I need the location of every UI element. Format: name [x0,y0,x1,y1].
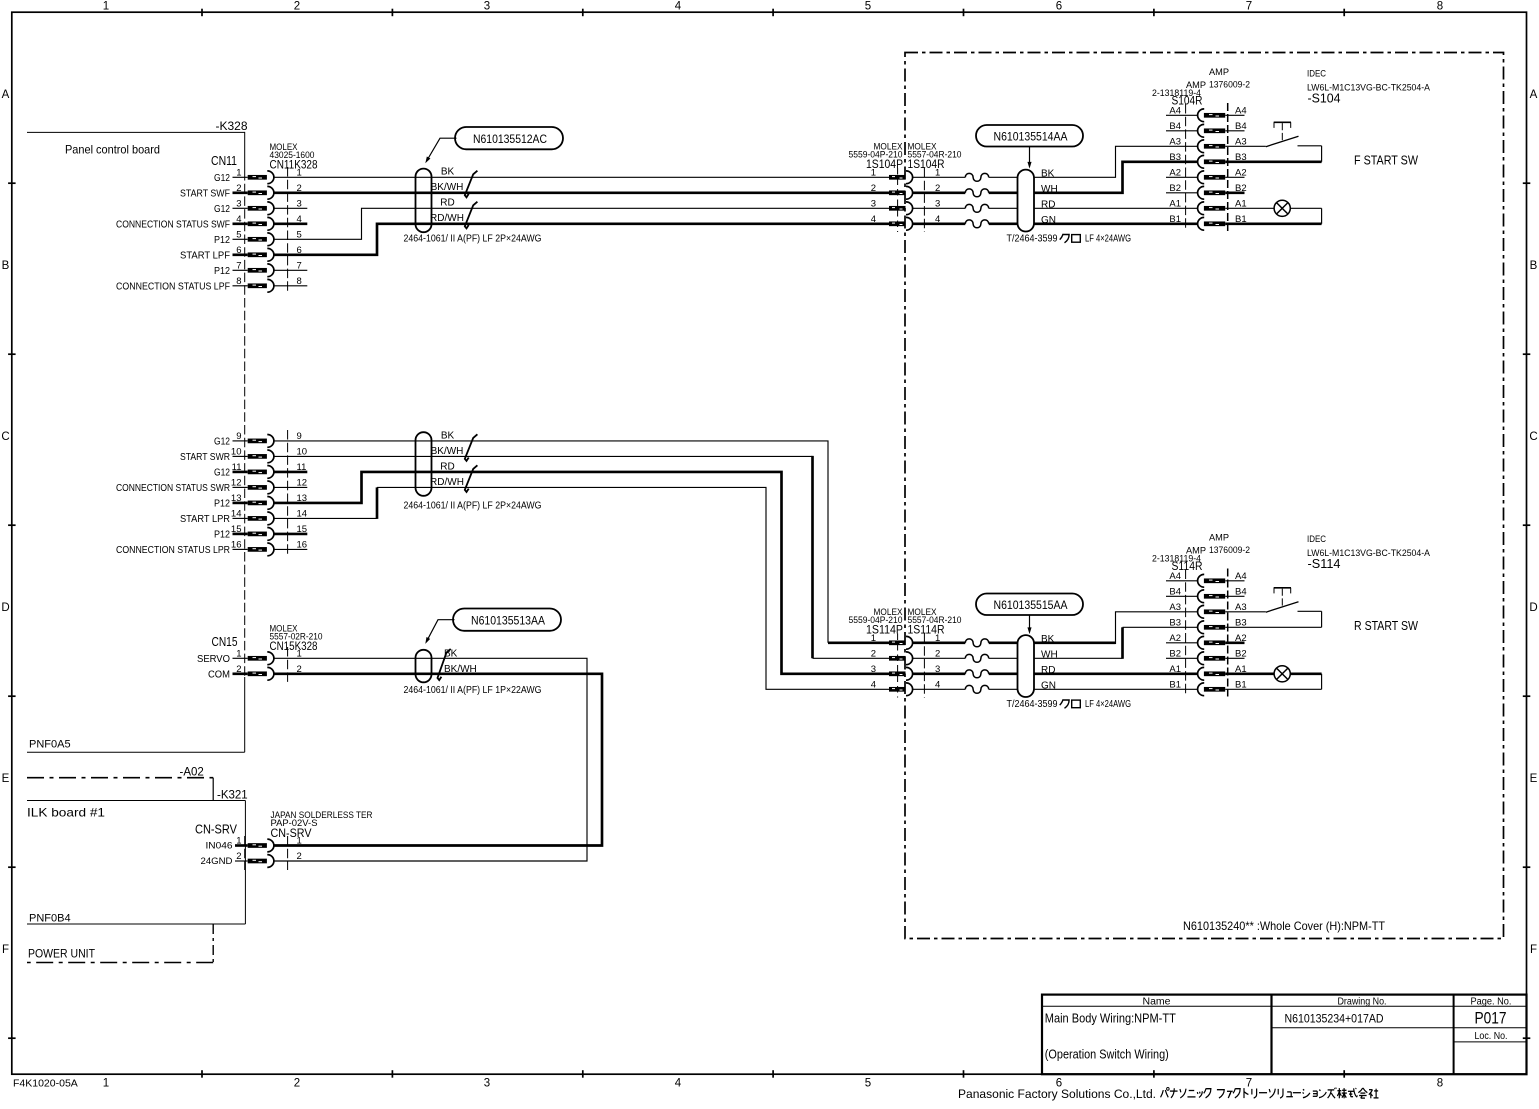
wire RD/WH CN11-6 to 1S104P-4 [274,224,889,255]
svg-text:1: 1 [236,836,241,847]
svg-text:9: 9 [297,431,302,442]
svg-text:A: A [2,89,10,101]
svg-text:RD: RD [440,461,454,472]
cable bundle N610135515AA [1018,635,1035,697]
svg-text:A3: A3 [1169,136,1181,147]
svg-text:1: 1 [103,1,109,13]
svg-text:GN: GN [1041,681,1056,692]
svg-text:IN046: IN046 [206,841,233,852]
svg-text:3: 3 [484,1,490,13]
svg-text:T/2464-3599: T/2464-3599 [1007,234,1058,245]
wire segment with break mark [913,670,1018,678]
svg-text:B: B [1530,260,1538,272]
svg-text:CONNECTION STATUS LPR: CONNECTION STATUS LPR [116,545,230,556]
svg-text:PNF0A5: PNF0A5 [29,739,71,751]
svg-text:2: 2 [236,851,241,862]
wire segment with break mark [913,204,1018,212]
svg-text:RD: RD [1041,200,1055,211]
callout oval N610135513AA [425,609,561,644]
mushroom head actuator [1274,122,1291,141]
svg-text:3: 3 [871,664,876,675]
svg-text:3: 3 [236,198,241,209]
svg-text:START LPR: START LPR [180,514,230,525]
svg-text:2: 2 [294,1,300,13]
svg-text:B4: B4 [1235,586,1247,597]
svg-text:9: 9 [236,431,241,442]
svg-text:D: D [1529,602,1537,614]
svg-text:B3: B3 [1169,617,1181,628]
svg-text:G12: G12 [214,437,230,448]
svg-text:CN11: CN11 [211,154,237,168]
svg-text:2: 2 [236,183,241,194]
svg-text:Loc. No.: Loc. No. [1475,1031,1508,1042]
svg-text:A1: A1 [1169,664,1181,675]
switch contact lines F START SW [1225,146,1321,162]
svg-text:3: 3 [484,1078,490,1090]
indicator lamp [1274,200,1290,216]
wire RD CN11-13 to 1S114P-3 [274,472,889,674]
svg-text:3: 3 [297,198,302,209]
svg-text:BK: BK [441,430,455,441]
wire segment with break mark [913,639,1018,647]
connector CN-SRV (JAPAN SOLDERLESS TER PAP-02V-S) [195,810,373,870]
svg-text:D: D [1,602,9,614]
wire WH to S104R-B3 [1034,162,1198,193]
svg-text:7: 7 [1246,1,1252,13]
svg-text:2464-1061/ II A(PF) LF 2P×24AW: 2464-1061/ II A(PF) LF 2P×24AWG [404,233,542,244]
svg-text:5: 5 [236,229,241,240]
svg-text:B3: B3 [1169,152,1181,163]
svg-text:1: 1 [297,167,302,178]
svg-text:CN-SRV: CN-SRV [271,826,312,840]
svg-text:F4K1020-05A: F4K1020-05A [13,1078,78,1090]
svg-text:2: 2 [871,183,876,194]
wire RD to S104R-A1 [1034,207,1198,209]
svg-text:LF 4×24AWG: LF 4×24AWG [1085,699,1131,710]
cable bundle N610135513AA [416,650,432,683]
svg-text:B1: B1 [1235,679,1247,690]
wire BK/WH CN11-10 to 1S114P-2 [274,456,889,658]
cable bundle N610135512AC [416,169,432,233]
svg-text:10: 10 [297,446,308,457]
svg-text:5: 5 [865,1,871,13]
svg-text:24GND: 24GND [201,856,233,867]
whole cover boundary N610135240 [905,53,1504,939]
svg-text:B2: B2 [1235,183,1247,194]
svg-text:B1: B1 [1169,214,1181,225]
switch contact lines R START SW [1225,611,1321,627]
svg-text:B4: B4 [1235,121,1247,132]
pair mark wires 11-12 [465,465,478,492]
svg-text:A4: A4 [1235,571,1247,582]
svg-text:C: C [1529,431,1537,443]
svg-text:Panasonic Factory Solutions Co: Panasonic Factory Solutions Co.,Ltd. [958,1087,1156,1101]
power unit -A02 dash-dot outline [27,778,213,963]
svg-text:BK: BK [441,167,455,178]
svg-text:B2: B2 [1235,648,1247,659]
svg-text:RD: RD [440,198,454,209]
svg-text:A: A [1530,89,1538,101]
svg-text:START SWR: START SWR [180,452,230,463]
svg-text:CN15: CN15 [212,635,238,649]
svg-text:1: 1 [871,167,876,178]
svg-text:13: 13 [231,493,242,504]
svg-text:-S104: -S104 [1308,92,1341,106]
svg-text:G12: G12 [214,173,230,184]
svg-text:SERVO: SERVO [197,654,230,665]
svg-text:1: 1 [236,167,241,178]
svg-text:CN-SRV: CN-SRV [195,823,238,837]
svg-text:IDEC: IDEC [1307,69,1326,80]
svg-text:IDEC: IDEC [1307,534,1326,545]
svg-text:-K328: -K328 [216,119,248,133]
svg-text:1: 1 [871,633,876,644]
svg-text:16: 16 [231,539,242,550]
svg-text:B2: B2 [1169,183,1181,194]
svg-text:Main Body Wiring:NPM-TT: Main Body Wiring:NPM-TT [1045,1011,1176,1026]
svg-text:7: 7 [297,260,302,271]
svg-text:A2: A2 [1169,167,1181,178]
wire RD CN11-5 to 1S104P-3 [274,208,889,239]
svg-text:N610135513AA: N610135513AA [471,613,545,627]
svg-text:R START SW: R START SW [1354,619,1418,633]
svg-text:G12: G12 [214,468,230,479]
svg-text:8: 8 [1437,1078,1443,1090]
svg-text:(Operation Switch Wiring): (Operation Switch Wiring) [1045,1047,1169,1062]
svg-text:10: 10 [231,446,242,457]
svg-text:WH: WH [1041,650,1058,661]
connector CN11 (MOLEX 43025-1600 / CN11K328) with pins 1-16 [116,142,318,557]
wire BK CN11-1 to 1S104P-1 [274,176,889,178]
svg-text:AMP: AMP [1209,533,1229,544]
svg-text:F: F [2,944,9,956]
svg-text:START LPF: START LPF [180,250,230,261]
svg-text:CONNECTION STATUS LPF: CONNECTION STATUS LPF [116,281,230,292]
wire BK CN15-1 to CN-SRV-2 [274,658,587,861]
callout oval N610135512AC [425,127,563,163]
svg-text:CONNECTION STATUS SWR: CONNECTION STATUS SWR [116,483,230,494]
svg-text:15: 15 [231,524,242,535]
svg-text:A3: A3 [1235,602,1247,613]
svg-text:PNF0B4: PNF0B4 [29,913,71,925]
svg-text:Panel control board: Panel control board [65,143,160,157]
wire segment with break mark [913,220,1018,228]
svg-text:F: F [1530,944,1537,956]
connector 1S104P/1S104R (MOLEX 5559-04P-210 / 5557-04R-210) [849,142,962,233]
wire GN to S114R-B1 [1034,688,1198,690]
svg-text:P12: P12 [214,235,230,246]
svg-text:11: 11 [232,462,242,473]
svg-text:4: 4 [675,1078,682,1090]
lamp circuit wires [1225,208,1321,224]
svg-text:1376009-2: 1376009-2 [1209,545,1250,556]
svg-text:2: 2 [236,664,241,675]
svg-text:6: 6 [236,245,241,256]
svg-text:8: 8 [236,276,241,287]
svg-text:12: 12 [297,477,308,488]
pair mark wires 9-10 [465,434,478,461]
svg-text:COM: COM [208,669,230,680]
pair mark CN15 wires [438,649,451,680]
svg-text:12: 12 [231,477,242,488]
stub CN11-8 [274,285,307,287]
svg-text:B4: B4 [1169,121,1181,132]
svg-text:2: 2 [871,648,876,659]
wire GN to S104R-B1 [1034,222,1198,225]
ILK board -K321 outline [27,801,245,925]
cable bundle N610135514AA [1018,170,1035,232]
svg-text:1: 1 [297,836,302,847]
svg-text:1: 1 [935,167,940,178]
svg-text:-S114: -S114 [1308,557,1341,571]
svg-text:N610135515AA: N610135515AA [994,598,1068,612]
svg-text:14: 14 [297,508,308,519]
svg-text:2: 2 [297,851,302,862]
svg-text:A4: A4 [1235,105,1247,116]
svg-text:P12: P12 [214,266,230,277]
switch blade R START SW [1266,602,1299,612]
svg-text:BK/WH: BK/WH [431,446,464,457]
svg-text:B3: B3 [1235,617,1247,628]
indicator lamp [1274,666,1290,682]
svg-text:2464-1061/ II A(PF) LF 1P×22AW: 2464-1061/ II A(PF) LF 1P×22AWG [404,685,542,696]
connector CN15 (MOLEX 5557-02R-210 / CN15K328) [197,624,323,684]
svg-text:A3: A3 [1169,602,1181,613]
stub CN11-15 [274,533,307,536]
stub CN11-11 [274,471,307,474]
svg-text:BK/WH: BK/WH [431,182,464,193]
cable spec T/2464-3599 kuro LF 4x24AWG [1007,234,1132,245]
svg-text:4: 4 [675,1,682,13]
wire RD to S114R-A1 [1034,672,1198,675]
svg-text:2: 2 [294,1078,300,1090]
svg-text:RD/WH: RD/WH [430,213,464,224]
svg-text:F START SW: F START SW [1354,154,1418,168]
svg-text:N610135240** :Whole Cover (H):: N610135240** :Whole Cover (H):NPM-TT [1183,919,1386,933]
svg-text:5: 5 [865,1078,871,1090]
wire BK to S104R-A3 [1034,146,1198,177]
wire segment with break mark [913,173,1018,181]
title block [1042,995,1527,1075]
svg-text:7: 7 [1246,1078,1252,1090]
svg-text:A2: A2 [1235,633,1247,644]
svg-text:5: 5 [297,229,302,240]
svg-text:8: 8 [1437,1,1443,13]
cable spec T/2464-3599 kuro LF 4x24AWG [1007,699,1132,710]
svg-text:B: B [2,260,10,272]
svg-text:P12: P12 [214,499,230,510]
svg-text:1376009-2: 1376009-2 [1209,80,1250,91]
pair mark wires 3-4 [465,202,478,229]
svg-text:A2: A2 [1235,167,1247,178]
svg-text:-A02: -A02 [180,767,204,779]
svg-text:16: 16 [297,539,308,550]
svg-text:3: 3 [935,198,940,209]
svg-text:CONNECTION STATUS SWF: CONNECTION STATUS SWF [116,219,230,230]
connector S114R (AMP 2-1318119-4 / 1376009-2) [1152,533,1250,697]
svg-text:B4: B4 [1169,586,1181,597]
svg-text:1: 1 [103,1078,109,1090]
svg-text:4: 4 [935,679,940,690]
svg-text:START SWF: START SWF [180,188,230,199]
wire BK/WH CN11-2 to 1S104P-2 [274,191,889,194]
svg-text:ILK board #1: ILK board #1 [27,806,105,820]
wire segment with break mark [913,685,1018,693]
svg-text:B1: B1 [1169,679,1181,690]
svg-text:1: 1 [236,648,241,659]
svg-text:4: 4 [871,214,876,225]
stub CN11-4 [274,222,307,225]
cable bundle (REAR pairs) [416,432,432,496]
svg-text:A4: A4 [1169,105,1181,116]
svg-text:-K321: -K321 [217,790,248,802]
svg-text:N610135514AA: N610135514AA [994,129,1068,143]
stub CN11-12 [274,486,307,488]
svg-text:LF 4×24AWG: LF 4×24AWG [1085,234,1131,245]
switch part labels IDEC -S114 [1307,534,1431,571]
svg-text:4: 4 [236,214,241,225]
svg-text:E: E [2,773,10,785]
svg-text:Name: Name [1143,997,1171,1008]
svg-text:N610135512AC: N610135512AC [473,132,547,146]
svg-text:AMP: AMP [1209,67,1229,78]
svg-text:A2: A2 [1169,633,1181,644]
connector 1S114P/1S114R (MOLEX 5559-04P-210 / 5557-04R-210) [849,607,962,698]
wire BK/WH CN15-2 to CN-SRV-1 [274,674,602,846]
company line Panasonic Factory Solutions [958,1087,1379,1101]
svg-text:A1: A1 [1169,198,1181,209]
svg-text:Page. No.: Page. No. [1471,997,1512,1008]
svg-text:BK/WH: BK/WH [444,664,477,675]
stub CN11-7 [274,269,307,271]
stub CN11-3 [274,207,307,209]
wire BK CN11-9 to 1S114P-1 [274,441,889,643]
wire WH to S114R-B3 [1034,627,1198,659]
svg-text:POWER UNIT: POWER UNIT [28,947,96,961]
wire BK to S114R-A3 [1034,612,1198,644]
pair mark wires 1-2 [465,171,478,198]
connector S104R (AMP 2-1318119-4 / 1376009-2) [1152,67,1250,231]
switch blade F START SW [1266,136,1299,146]
svg-text:3: 3 [871,198,876,209]
svg-text:7: 7 [236,260,241,271]
svg-text:14: 14 [231,508,242,519]
callout oval N610135515AA [976,594,1083,635]
svg-text:B2: B2 [1169,648,1181,659]
svg-text:2: 2 [935,648,940,659]
svg-text:Drawing No.: Drawing No. [1338,997,1387,1008]
svg-text:RD/WH: RD/WH [430,477,464,488]
mushroom head actuator [1274,588,1291,607]
svg-text:G12: G12 [214,204,230,215]
panel control board -K328 outline [27,132,245,752]
lamp circuit wires [1225,674,1321,690]
svg-text:6: 6 [1056,1,1062,13]
svg-text:4: 4 [871,679,876,690]
svg-text:N610135234+017AD: N610135234+017AD [1285,1012,1384,1026]
svg-text:2464-1061/ II A(PF) LF 2P×24AW: 2464-1061/ II A(PF) LF 2P×24AWG [404,500,542,511]
callout oval N610135514AA [976,125,1083,169]
wire segment with break mark [913,654,1018,662]
svg-text:C: C [1,431,9,443]
svg-text:8: 8 [297,276,302,287]
svg-text:CN11K328: CN11K328 [270,158,318,172]
svg-text:A3: A3 [1235,136,1247,147]
svg-text:A4: A4 [1169,571,1181,582]
svg-text:P12: P12 [214,530,230,541]
wire RD/WH CN11-14 to 1S114P-4 [274,487,889,689]
switch part labels IDEC -S104 [1307,69,1431,106]
wire segment with break mark [913,189,1018,197]
stub CN11-16 [274,548,307,550]
svg-text:T/2464-3599: T/2464-3599 [1007,699,1058,710]
svg-text:A1: A1 [1235,198,1247,209]
svg-text:P017: P017 [1475,1009,1507,1028]
svg-text:BK: BK [1041,169,1055,180]
svg-text:E: E [1530,773,1538,785]
svg-text:1: 1 [297,648,302,659]
svg-text:CN15K328: CN15K328 [270,639,318,653]
